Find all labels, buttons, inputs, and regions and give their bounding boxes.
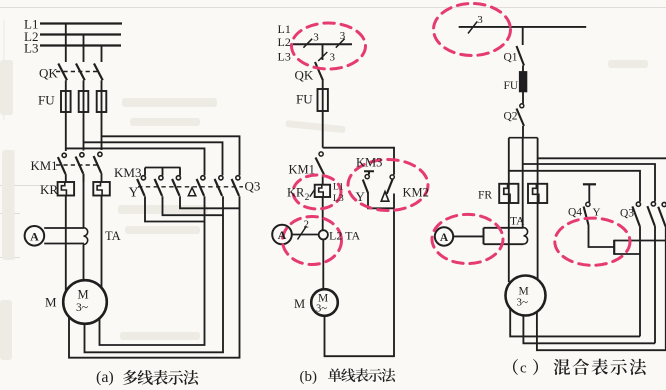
svg-text:Y: Y <box>593 207 601 219</box>
svg-text:L1: L1 <box>333 181 344 192</box>
svg-text:FU: FU <box>38 93 55 108</box>
svg-text:M: M <box>294 297 305 311</box>
svg-text:L3: L3 <box>333 193 344 204</box>
svg-text:KR: KR <box>287 186 305 200</box>
svg-text:3: 3 <box>477 14 483 26</box>
svg-text:FU: FU <box>296 92 313 107</box>
svg-text:A: A <box>440 232 449 244</box>
svg-text:A: A <box>30 229 39 243</box>
svg-text:3~: 3~ <box>517 297 529 309</box>
svg-text:Q2: Q2 <box>504 111 518 123</box>
svg-text:Y: Y <box>356 189 366 204</box>
svg-text:3: 3 <box>313 32 319 44</box>
svg-text:2: 2 <box>304 219 310 231</box>
svg-text:TA: TA <box>105 229 121 243</box>
svg-text:c: c <box>520 361 527 377</box>
svg-text:3~: 3~ <box>76 302 88 314</box>
svg-text:QK: QK <box>295 68 314 83</box>
svg-text:KM3: KM3 <box>356 156 382 170</box>
svg-text:Q3: Q3 <box>620 208 634 220</box>
svg-text:Q1: Q1 <box>504 52 518 64</box>
svg-text:KM3: KM3 <box>114 165 141 180</box>
svg-text:3: 3 <box>330 52 336 64</box>
svg-text:M: M <box>45 295 57 310</box>
svg-text:(b): (b) <box>300 369 318 385</box>
svg-text:3~: 3~ <box>316 304 327 315</box>
svg-text:L1: L1 <box>278 22 291 36</box>
svg-text:KM2: KM2 <box>403 186 429 200</box>
svg-text:L2 TA: L2 TA <box>329 229 360 243</box>
svg-text:Q4: Q4 <box>568 207 582 219</box>
svg-text:Q3: Q3 <box>245 179 261 194</box>
svg-text:L2: L2 <box>278 35 291 49</box>
svg-text:Y: Y <box>129 186 139 201</box>
svg-text:L3: L3 <box>24 41 38 56</box>
svg-text:FR: FR <box>478 190 492 202</box>
svg-text:TA: TA <box>510 216 525 228</box>
svg-text:(a): (a) <box>96 369 114 386</box>
svg-text:2: 2 <box>305 193 310 203</box>
svg-text:KM1: KM1 <box>31 159 58 173</box>
svg-text:QK: QK <box>39 66 58 81</box>
svg-text:KM1: KM1 <box>289 163 315 177</box>
svg-text:3: 3 <box>340 30 346 42</box>
svg-text:FU: FU <box>504 80 519 92</box>
svg-text:M: M <box>78 288 89 302</box>
svg-text:A: A <box>278 228 287 242</box>
svg-text:L3: L3 <box>278 50 291 64</box>
svg-text:KR: KR <box>40 182 58 197</box>
